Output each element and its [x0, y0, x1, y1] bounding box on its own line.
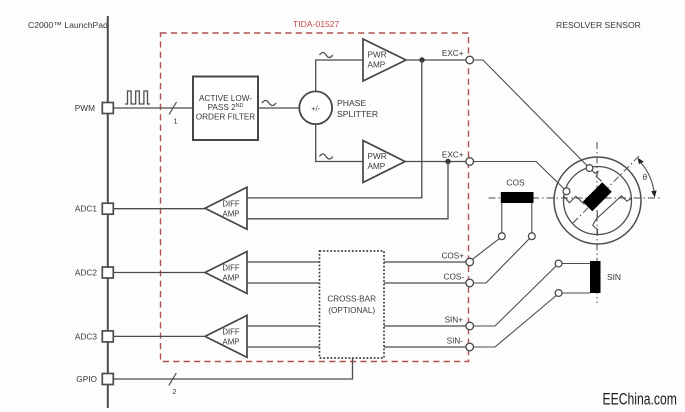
- sine symbol after filter: [262, 101, 276, 106]
- wire GPIO to cross-bar: [113, 358, 352, 379]
- bus slash 2: [169, 373, 177, 386]
- summing circle +/- of phase splitter: [299, 91, 332, 124]
- wire cross-bar to SIN-: [384, 346, 466, 348]
- wire diff amp3 top input to cross-bar: [247, 325, 320, 327]
- block cross-bar (optional): [320, 251, 385, 358]
- DIFF AMP 2 triangle: [205, 252, 247, 294]
- pin ADC3 pad: [102, 331, 113, 342]
- pin ADC1 pad: [102, 203, 113, 214]
- terminal circle EXC+ lower: [466, 158, 474, 166]
- launchpad bus line: [107, 16, 109, 408]
- wire diff amp2 top input to cross-bar: [247, 261, 320, 263]
- PWR AMP 2 triangle: [363, 141, 405, 183]
- terminal circle COS-: [466, 279, 474, 287]
- theta arc arrowhead bottom: [651, 190, 656, 197]
- pin ADC2 pad: [102, 267, 113, 278]
- junction node on EXC+ line: [419, 57, 424, 62]
- cos winding axis dash-dot line: [489, 197, 661, 199]
- cos winding right lead: [531, 203, 533, 233]
- wire SIN- to sin winding: [474, 296, 557, 348]
- cos winding black bar: [501, 192, 534, 203]
- wire splitter to bottom PWR amp: [316, 124, 363, 161]
- pin PWM pad: [102, 103, 113, 114]
- rotor axis dash-dot line: [573, 156, 639, 223]
- svg-text:DIFF: DIFF: [222, 328, 240, 337]
- svg-text:1: 1: [173, 117, 177, 126]
- svg-text:AMP: AMP: [223, 338, 240, 347]
- pwm pulse waveform glyph: [125, 91, 150, 104]
- wire junction down to diff amp1 second input: [247, 162, 448, 219]
- rotor terminal circle 2: [563, 188, 570, 195]
- terminal circle COS+: [466, 258, 474, 266]
- svg-text:EXC+: EXC+: [442, 151, 464, 160]
- rotor black bar: [588, 187, 608, 207]
- wire lower EXC to resolver rotor terminal 2: [474, 162, 565, 189]
- svg-text:SIN+: SIN+: [445, 316, 464, 325]
- red dashed TIDA-01527 boundary box: [161, 33, 469, 362]
- sine symbol top branch: [320, 53, 333, 58]
- svg-text:+/-: +/-: [311, 104, 320, 113]
- wire ADC2 to diff amp2: [113, 272, 205, 274]
- stator lead stem below rotor: [596, 211, 598, 218]
- wire EXC+ to resolver rotor terminal 1: [474, 60, 588, 166]
- svg-text:TIDA-01527: TIDA-01527: [293, 19, 340, 29]
- svg-text:ADC3: ADC3: [75, 331, 98, 341]
- svg-text:PWR: PWR: [368, 152, 387, 161]
- svg-text:DIFF: DIFF: [222, 199, 240, 208]
- bus slash 1: [169, 102, 177, 115]
- wire COS- to cos winding: [474, 239, 530, 283]
- sin winding top lead: [562, 263, 590, 265]
- wire cross-bar to COS+: [384, 261, 466, 263]
- wire cross-bar to SIN+: [384, 325, 466, 327]
- DIFF AMP 1 triangle: [205, 187, 247, 229]
- svg-text:EEChina.com: EEChina.com: [603, 391, 677, 409]
- PWR AMP 1 triangle: [363, 39, 406, 81]
- wire filter to phase splitter: [258, 107, 299, 109]
- wire junction down to diff amp1 input: [247, 60, 422, 198]
- pin GPIO pad: [102, 374, 113, 385]
- svg-text:COS: COS: [506, 178, 525, 188]
- svg-text:C2000™ LaunchPad: C2000™ LaunchPad: [28, 20, 108, 30]
- stator bottom zigzag to inner circle: [593, 218, 598, 235]
- cos winding left lead: [501, 203, 503, 233]
- svg-text:AMP: AMP: [223, 209, 240, 218]
- svg-text:PWM: PWM: [75, 103, 95, 113]
- svg-text:DIFF: DIFF: [222, 264, 240, 273]
- wire amp1 to EXC+ terminal: [406, 59, 466, 61]
- terminal circle SIN-: [466, 343, 474, 351]
- svg-text:SPLITTER: SPLITTER: [337, 109, 378, 119]
- wire ADC3 to diff amp3: [113, 335, 205, 337]
- terminal circle EXC+: [466, 56, 474, 64]
- wire amp2 to EXC+ lower terminal: [405, 161, 466, 163]
- sine symbol bottom branch: [320, 154, 333, 159]
- wire SIN+ to sin winding: [474, 266, 557, 326]
- svg-text:PHASE: PHASE: [337, 98, 366, 108]
- svg-text:CROSS-BAR: CROSS-BAR: [327, 295, 376, 304]
- wire diff amp2 bottom input to cross-bar: [247, 282, 320, 284]
- svg-text:GPIO: GPIO: [76, 374, 97, 384]
- svg-text:EXC+: EXC+: [442, 49, 464, 58]
- sin winding top terminal circle: [555, 260, 562, 267]
- wire splitter to top PWR amp: [316, 60, 363, 91]
- cos winding left terminal circle: [498, 233, 505, 240]
- svg-text:ACTIVE LOW-: ACTIVE LOW-: [199, 94, 252, 103]
- svg-text:PWR: PWR: [368, 51, 387, 60]
- svg-text:AMP: AMP: [368, 60, 386, 69]
- stator right zigzag to inner circle: [597, 196, 631, 218]
- svg-text:ORDER FILTER: ORDER FILTER: [196, 113, 256, 122]
- sin winding bottom terminal circle: [555, 290, 562, 297]
- svg-text:SIN: SIN: [607, 272, 621, 282]
- terminal circle SIN+: [466, 322, 474, 330]
- rotor winding zigzag from terminal 2: [564, 196, 585, 205]
- theta arc arrowhead top: [638, 158, 644, 165]
- wire cross-bar to COS-: [384, 282, 466, 284]
- svg-text:ADC2: ADC2: [75, 268, 98, 278]
- wire COS+ to cos winding: [472, 239, 499, 260]
- sin winding axis dash-dot line: [596, 142, 598, 303]
- wire PWM to filter: [113, 107, 193, 109]
- svg-text:2: 2: [172, 387, 176, 396]
- rotor winding zigzag from terminal 1: [592, 170, 602, 181]
- wire diff amp3 bottom input to cross-bar: [247, 346, 320, 348]
- svg-text:RESOLVER SENSOR: RESOLVER SENSOR: [556, 20, 641, 30]
- theta angle arc with arrows: [641, 162, 655, 193]
- wire ADC1 to diff amp1: [113, 208, 205, 210]
- junction node on lower EXC line: [445, 159, 450, 164]
- block U1 active low-pass filter: [193, 77, 258, 141]
- sin winding bottom lead: [562, 292, 590, 294]
- cos winding right terminal circle: [528, 233, 535, 240]
- svg-text:ADC1: ADC1: [75, 204, 98, 214]
- svg-text:θ: θ: [643, 173, 648, 182]
- svg-text:COS+: COS+: [441, 252, 464, 261]
- resolver outer circle: [554, 157, 641, 244]
- svg-text:(OPTIONAL): (OPTIONAL): [328, 306, 375, 315]
- resolver inner circle: [564, 167, 632, 235]
- rotor terminal circle 1: [586, 165, 593, 172]
- sin winding black bar: [590, 261, 601, 293]
- svg-text:AMP: AMP: [223, 274, 240, 283]
- svg-text:COS-: COS-: [444, 273, 465, 282]
- svg-text:SIN-: SIN-: [447, 337, 464, 346]
- DIFF AMP 3 triangle: [205, 315, 247, 357]
- svg-text:AMP: AMP: [368, 162, 386, 171]
